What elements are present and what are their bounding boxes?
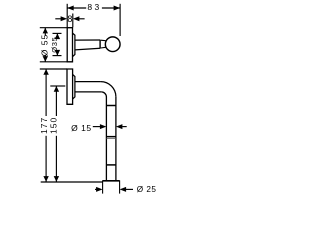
dim O25 leader right xyxy=(126,188,133,190)
dim O35 extension lines xyxy=(53,32,62,34)
svg-text:8: 8 xyxy=(67,14,72,24)
dim O55 extension lines xyxy=(40,27,67,29)
dim O35 arrowheads xyxy=(55,33,60,39)
dim 8 leader right xyxy=(79,18,85,20)
svg-text:Ø 15: Ø 15 xyxy=(71,123,91,133)
svg-text:Ø 25: Ø 25 xyxy=(137,185,157,194)
dim 83 arrowheads xyxy=(67,6,74,11)
dim O25 leader left xyxy=(95,188,96,190)
wall plate (front view) xyxy=(67,69,73,104)
rod joint tick 1 xyxy=(106,105,116,107)
ball end xyxy=(105,37,120,52)
svg-text:177: 177 xyxy=(39,117,49,134)
dim 150 arrowheads xyxy=(54,86,59,92)
dim O35 line stubs xyxy=(56,33,58,35)
dim O55 arrowheads xyxy=(43,28,48,34)
dim O55 line xyxy=(44,28,46,36)
dim 177 arrowheads xyxy=(43,69,48,75)
dim 8 extension line right xyxy=(72,14,74,28)
arm stem (top view) xyxy=(75,40,100,50)
dim 8 leader left xyxy=(55,18,61,20)
elbow inner arc xyxy=(101,92,106,97)
base foot side edges xyxy=(102,180,104,193)
elbow outer arc xyxy=(101,82,116,97)
wall plate (top view) xyxy=(67,28,72,62)
svg-text:Ø35: Ø35 xyxy=(50,36,59,52)
svg-text:83: 83 xyxy=(87,2,101,12)
dim 177 line xyxy=(45,69,47,116)
dim 83 line xyxy=(67,7,86,9)
horizontal pipe walls xyxy=(75,82,101,92)
dim 83 extension line left xyxy=(66,4,68,27)
svg-text:Ø 55: Ø 55 xyxy=(40,34,50,56)
vertical rod walls xyxy=(106,97,116,180)
hub cone (front view) xyxy=(73,74,75,99)
dim 177 extension line top xyxy=(40,68,67,70)
base foot top edge xyxy=(103,180,120,182)
dim O15 leader right xyxy=(122,126,127,128)
dim 150 line xyxy=(55,86,57,116)
dim 83 extension line right xyxy=(119,4,121,36)
hub cone (top view) xyxy=(73,33,75,57)
baseline xyxy=(41,181,103,183)
dim 150 extension line top xyxy=(50,85,65,87)
rod joint tick 2 (double) xyxy=(106,136,116,138)
dim O15 leader left xyxy=(93,126,100,128)
stem end tick xyxy=(99,40,101,49)
neck to ball xyxy=(101,40,106,48)
rod joint tick 3 xyxy=(106,164,116,166)
svg-text:150: 150 xyxy=(49,117,59,134)
